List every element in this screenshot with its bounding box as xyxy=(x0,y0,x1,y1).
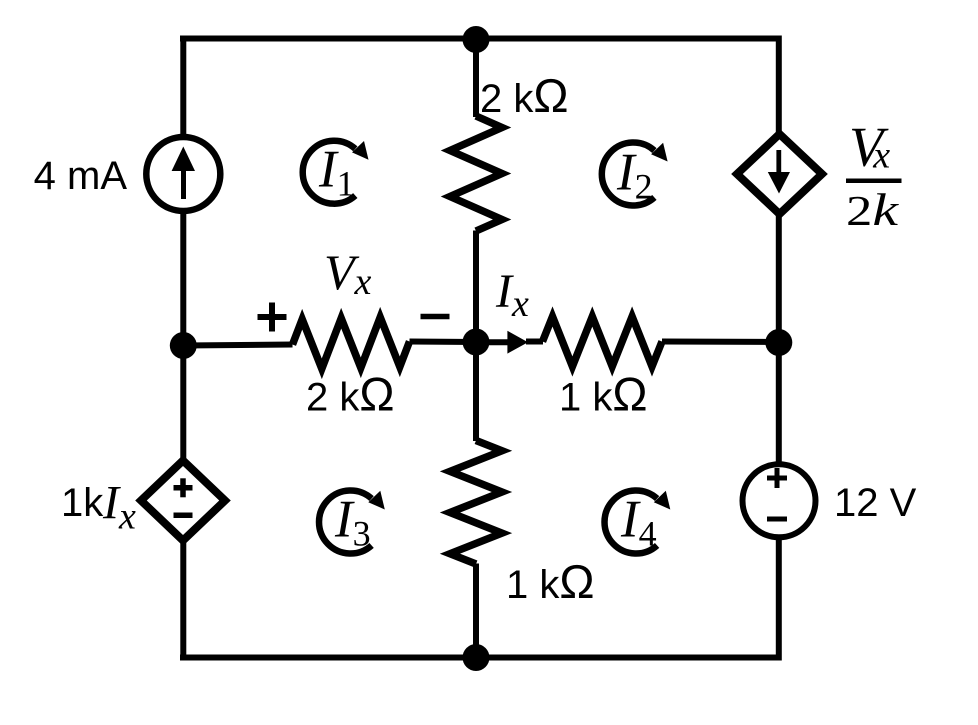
wire right lower segment xyxy=(776,538,782,661)
wire middle vertical: center node to resistor R4 xyxy=(473,342,479,441)
12V source minus sign xyxy=(767,517,787,522)
node bottom xyxy=(463,644,490,671)
label Vx/2k fraction bar xyxy=(846,179,902,184)
minus sign of Vx polarity xyxy=(421,314,450,320)
12V source plus sign xyxy=(767,468,787,488)
wire left upper segment xyxy=(180,36,186,139)
wire middle vertical: resistor R4 to bottom node xyxy=(473,564,479,658)
node right xyxy=(765,329,792,356)
svg-text:1k: 1k xyxy=(61,481,104,525)
wire left lower segment xyxy=(180,540,186,661)
current source I=4mA circle xyxy=(146,137,220,211)
svg-text:2 kΩ: 2 kΩ xyxy=(480,69,569,122)
4mA source arrow xyxy=(172,147,195,200)
mesh current arrow I3 xyxy=(319,491,385,554)
resistor R3 1kOhm horizontal xyxy=(543,317,663,367)
dependent voltage source 1kIx diamond xyxy=(141,461,225,541)
node top xyxy=(463,26,490,53)
resistor R1 2kOhm vertical xyxy=(450,116,502,231)
resistor R2 2kOhm horizontal (Vx) xyxy=(293,317,410,369)
wire between resistor R2 and center node xyxy=(410,339,477,346)
wire right upper segment xyxy=(776,36,782,136)
plus sign of Vx polarity xyxy=(258,303,287,332)
wire middle vertical: top node to resistor R1 xyxy=(473,39,479,118)
wire middle horizontal left of resistor R2 xyxy=(183,345,292,346)
svg-text:2 kΩ: 2 kΩ xyxy=(306,368,395,421)
svg-text:2k: 2k xyxy=(846,184,900,235)
node center xyxy=(463,329,490,356)
wire top xyxy=(180,36,781,42)
1kIx source plus sign xyxy=(174,478,193,497)
Ix current arrow xyxy=(478,331,528,354)
wire right middle segment xyxy=(776,213,782,465)
1kIx source minus sign xyxy=(174,513,193,519)
svg-text:12 V: 12 V xyxy=(834,481,917,525)
svg-text:1 kΩ: 1 kΩ xyxy=(559,368,648,421)
wire between resistor R3 and right node xyxy=(662,339,779,346)
wire between Ix arrow and resistor R3 xyxy=(526,339,543,345)
dependent current source Vx/2k diamond xyxy=(737,134,822,214)
Vx/2k source arrow (down) xyxy=(768,150,790,194)
svg-text:4 mA: 4 mA xyxy=(34,154,128,198)
mesh current arrow I2 xyxy=(602,143,668,206)
wire left middle segment xyxy=(180,211,186,462)
svg-text:1 kΩ: 1 kΩ xyxy=(506,555,595,608)
mesh current arrow I4 xyxy=(605,491,671,554)
wire middle vertical: resistor R1 to center node xyxy=(473,231,479,343)
resistor R4 1kOhm vertical xyxy=(450,441,502,565)
voltage source 12V circle xyxy=(743,464,816,537)
node left xyxy=(170,332,197,359)
mesh current arrow I1 xyxy=(303,141,369,204)
wire bottom xyxy=(180,655,781,661)
